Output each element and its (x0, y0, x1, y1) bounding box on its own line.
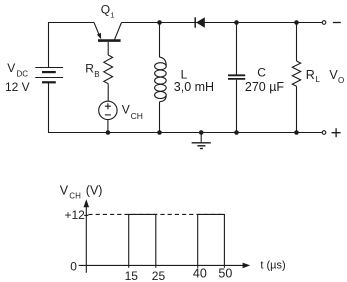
svg-text:O: O (338, 76, 344, 85)
svg-text:1: 1 (110, 10, 114, 19)
svg-text:CH: CH (69, 192, 81, 201)
svg-text:V: V (7, 61, 15, 75)
svg-text:B: B (94, 70, 99, 79)
svg-text:L: L (315, 75, 320, 84)
svg-text:+12: +12 (65, 208, 86, 222)
svg-text:270 µF: 270 µF (245, 80, 285, 94)
svg-text:(V): (V) (86, 183, 103, 197)
svg-text:CH: CH (131, 111, 143, 121)
svg-text:40: 40 (193, 267, 207, 281)
svg-text:V: V (122, 103, 130, 117)
svg-text:V: V (60, 183, 69, 197)
svg-text:DC: DC (17, 70, 29, 79)
svg-text:t (µs): t (µs) (260, 260, 285, 272)
svg-text:R: R (85, 61, 94, 75)
svg-text:25: 25 (152, 269, 166, 282)
svg-text:50: 50 (218, 267, 232, 281)
svg-text:R: R (306, 68, 315, 82)
svg-text:0: 0 (70, 260, 77, 274)
svg-text:Q: Q (101, 3, 110, 17)
svg-text:15: 15 (125, 269, 139, 282)
svg-text:C: C (257, 66, 266, 80)
svg-text:3,0 mH: 3,0 mH (174, 80, 214, 94)
svg-text:12 V: 12 V (5, 80, 30, 94)
